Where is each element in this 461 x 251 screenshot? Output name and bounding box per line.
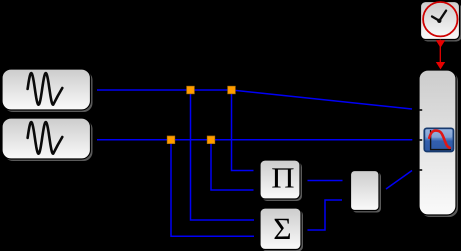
wire: from junction C down to SUM lower input (171, 140, 254, 237)
sine wave glyph of GENSIN 1 (28, 73, 63, 105)
junction C on sine2 wire (167, 136, 175, 144)
Sigma label of sum block (275, 219, 291, 239)
scope block CSCOPE (419, 70, 458, 217)
wire: from junction B down to PROD upper input (232, 90, 254, 171)
clock block CLOCK (421, 2, 461, 42)
clock face: red circle and hands (423, 2, 457, 36)
scope input port ticks (419, 110, 422, 170)
product block PROD (Pi) (260, 160, 302, 201)
sine source block GENSIN 1 (2, 69, 93, 112)
wire: sine1 output horizontal then diagonal to scope input 1 (97, 90, 412, 109)
wire: from junction D down to PROD lower input (211, 140, 254, 190)
wire: sine2 output horizontal to scope input 2 (97, 139, 412, 141)
junction A on sine1 wire (187, 86, 195, 94)
wire: from junction A down to SUM upper input (191, 90, 255, 220)
mux block MUX (351, 171, 382, 213)
wire: PROD output to MUX upper input (308, 180, 343, 182)
sine source block GENSIN 2 (2, 118, 93, 161)
summation block SUM (Sigma) (260, 208, 303, 251)
junction B on sine1 wire (228, 86, 236, 94)
Pi label of product block (272, 168, 293, 187)
red event link from clock to scope with two arrowheads (436, 40, 445, 70)
junction D on sine2 wire (207, 136, 215, 144)
sine wave glyph of GENSIN 2 (28, 122, 63, 154)
wire: MUX output diagonal to scope input 3 (386, 171, 412, 190)
wire: SUM output up to MUX lower input (308, 200, 343, 230)
scope display icon (424, 128, 453, 151)
